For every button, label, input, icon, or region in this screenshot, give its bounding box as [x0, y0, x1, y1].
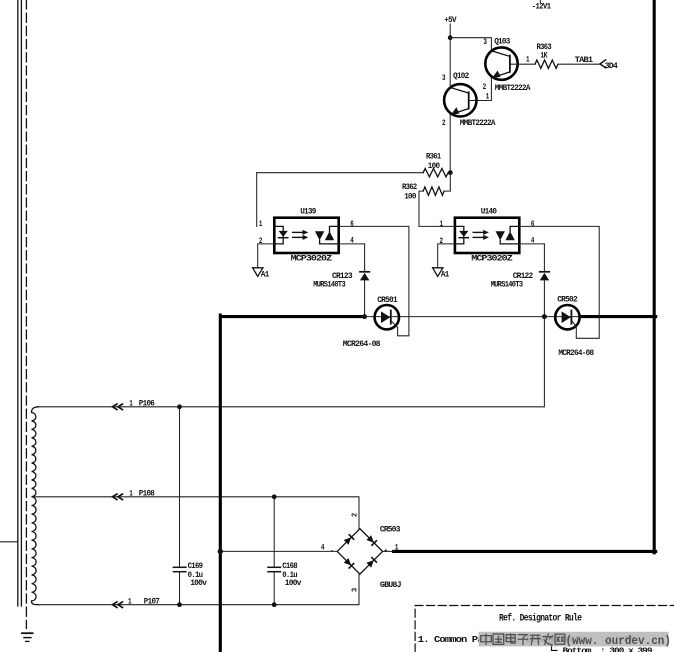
port 3D4 — [600, 60, 606, 68]
bridge rectifier CR503 — [321, 513, 402, 592]
svg-text:CR503: CR503 — [380, 524, 400, 534]
svg-text:1: 1 — [259, 219, 262, 229]
svg-text:100v: 100v — [190, 578, 207, 588]
svg-text:3: 3 — [442, 73, 445, 83]
thick bus: bridge output horizontal — [394, 550, 656, 553]
wire R361 to U139 pin1 — [256, 173, 258, 227]
thick bus: SCR cathode horizontal right segment — [581, 315, 656, 318]
transformer secondary winding — [32, 407, 39, 605]
svg-text:U140: U140 — [481, 206, 497, 216]
resistor R363 — [535, 60, 558, 68]
thick bus: left vertical — [219, 315, 222, 652]
thyristor CR502 — [555, 294, 594, 358]
svg-text:1: 1 — [486, 91, 489, 101]
resistor R361 — [257, 172, 423, 174]
transistor Q103 — [469, 37, 535, 102]
svg-text:TAB1: TAB1 — [575, 55, 593, 65]
wire P106 net — [39, 316, 545, 406]
svg-text:1: 1 — [129, 398, 132, 408]
svg-text:+5V: +5V — [444, 15, 457, 25]
svg-text:P108: P108 — [139, 488, 155, 498]
resistor R362 — [423, 187, 444, 195]
svg-text:3D4: 3D4 — [605, 61, 618, 71]
thick bus: right vertical — [653, 0, 656, 553]
op-amp U140 optocoupler — [440, 206, 535, 263]
svg-text:MMBT2222A: MMBT2222A — [495, 83, 532, 93]
node P107 chevrons — [113, 602, 123, 608]
svg-text:MURS140T3: MURS140T3 — [491, 280, 523, 290]
rule text line 2 — [552, 644, 558, 650]
svg-text:6: 6 — [531, 219, 534, 229]
transformer T primary line 1 — [17, 0, 19, 606]
svg-text:2: 2 — [442, 118, 445, 128]
svg-text:MURS140T3: MURS140T3 — [313, 280, 345, 290]
svg-text:A1: A1 — [441, 269, 449, 279]
svg-text:MCR264-08: MCR264-08 — [343, 339, 381, 349]
svg-text:MCP3020Z: MCP3020Z — [471, 253, 512, 263]
wire P107 net — [39, 574, 360, 605]
junction +5V node — [448, 35, 453, 40]
wire primary feed — [0, 541, 18, 543]
watermark block — [479, 632, 669, 647]
svg-text:MMBT2222A: MMBT2222A — [460, 118, 497, 128]
node P106 chevrons — [113, 404, 123, 410]
svg-text:3: 3 — [351, 588, 359, 592]
svg-text:2: 2 — [259, 236, 262, 246]
svg-text:4: 4 — [321, 542, 324, 552]
wire bridge minus lead — [220, 550, 337, 552]
wire SCR bus thin — [365, 316, 582, 318]
wire U139 pin4 down — [364, 244, 366, 272]
wire U140 pin6 to CR502 gate — [519, 226, 599, 338]
svg-text:100v: 100v — [285, 578, 302, 588]
wire U140 pin1 — [419, 225, 455, 227]
svg-text:(www. ourdev.cn): (www. ourdev.cn) — [566, 635, 672, 648]
ground A1 (U140) — [433, 268, 443, 277]
Ref. Designator Rule box (dashed) — [415, 606, 674, 652]
junction R361/R362/Q102 — [448, 170, 453, 175]
thick bus: SCR anode horizontal left segment — [222, 315, 365, 318]
wire R363 to TAB1 port — [558, 63, 600, 65]
svg-text:100: 100 — [428, 161, 440, 171]
svg-text:1: 1 — [395, 542, 398, 552]
transformer core dashed line — [25, 0, 27, 629]
svg-text:1: 1 — [129, 488, 132, 498]
svg-text:-: - — [330, 548, 333, 555]
svg-text:A1: A1 — [261, 269, 269, 279]
svg-text:P107: P107 — [144, 596, 160, 606]
op-amp U139 optocoupler — [259, 206, 354, 263]
svg-text:Ref. Designator Rule: Ref. Designator Rule — [499, 613, 582, 625]
capacitor C168 — [273, 497, 275, 568]
svg-text:1: 1 — [526, 54, 529, 64]
diode CR123 — [360, 271, 370, 273]
svg-text:2: 2 — [440, 236, 443, 246]
ground (earth) at transformer core — [22, 633, 33, 641]
node P108 chevrons — [113, 494, 123, 500]
capacitor C169 — [179, 407, 181, 568]
wire U140 pin4 down — [519, 243, 544, 245]
svg-text:1: 1 — [440, 219, 443, 229]
svg-text:Q103: Q103 — [494, 37, 510, 47]
wire P108 net — [33, 497, 359, 529]
wire +5V lead — [449, 24, 451, 86]
transistor Q102 — [442, 71, 496, 173]
ground A1 (U139) — [253, 268, 263, 277]
svg-text:Q102: Q102 — [453, 71, 469, 81]
wire bridge plus lead — [383, 550, 395, 552]
wire U139 pin2 to A1 — [258, 244, 275, 268]
svg-text:1: 1 — [128, 596, 131, 606]
junction CR123 / bus — [362, 314, 367, 319]
svg-text:CR502: CR502 — [557, 294, 577, 304]
svg-text:U139: U139 — [300, 206, 316, 216]
wire U140 pin2 to A1 — [438, 244, 455, 268]
wire to Q103 collector — [450, 38, 491, 51]
svg-text:MCR264-08: MCR264-08 — [558, 348, 594, 358]
svg-text:3: 3 — [483, 37, 486, 47]
node -12V1 stub — [539, 0, 541, 3]
svg-text:GBU8J: GBU8J — [380, 580, 402, 590]
svg-text:P106: P106 — [139, 398, 155, 408]
wire U139 pin6 to CR501 gate — [339, 226, 409, 335]
svg-text:-12V1: -12V1 — [532, 2, 551, 12]
svg-text:6: 6 — [350, 219, 353, 229]
svg-text:2: 2 — [351, 513, 359, 517]
svg-text:100: 100 — [404, 192, 416, 202]
transformer T primary line 2 — [20, 0, 22, 606]
diode CR122 — [540, 271, 550, 273]
svg-text:CR501: CR501 — [377, 295, 397, 305]
junction CR122 / bus / P106 — [542, 314, 547, 319]
svg-text:MCP3020Z: MCP3020Z — [291, 253, 332, 263]
thyristor CR501 — [343, 295, 399, 349]
